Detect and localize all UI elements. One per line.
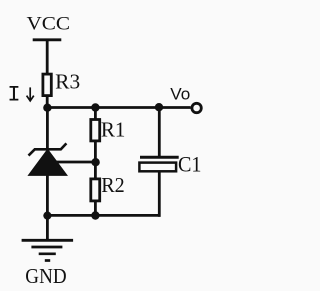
- svg-text:R3: R3: [55, 69, 80, 93]
- wire to ground: [46, 215, 49, 240]
- svg-text:Vo: Vo: [170, 85, 190, 103]
- wire bottom rail: [47, 214, 160, 217]
- svg-text:R1: R1: [101, 118, 126, 142]
- svg-text:R2: R2: [101, 173, 125, 197]
- wire top rail to Vo: [47, 106, 190, 109]
- ground symbol: [22, 240, 74, 260]
- wire R3 to node A: [46, 95, 49, 110]
- wire node to R1: [94, 108, 97, 121]
- wire node to C1: [158, 107, 161, 158]
- node junction dot middle: [91, 103, 99, 111]
- svg-text:C1: C1: [178, 152, 202, 177]
- resistor R3: [43, 74, 51, 96]
- current arrow down: [27, 87, 34, 101]
- svg-text:GND: GND: [25, 264, 66, 288]
- zener diode anode triangle: [28, 149, 67, 175]
- power VCC bar: [33, 38, 62, 41]
- node A junction dot: [43, 104, 51, 112]
- zener diode cathode bar: [29, 143, 67, 155]
- capacitor C1 top plate: [140, 156, 179, 159]
- resistor R2: [91, 179, 100, 201]
- wire zener to bottom rail: [46, 174, 49, 215]
- wire C1 to bottom rail: [158, 172, 161, 217]
- wire ref from diode to divider: [47, 161, 95, 164]
- resistor R1: [91, 120, 100, 141]
- wire R2 to bottom rail: [94, 201, 97, 216]
- svg-text:VCC: VCC: [27, 14, 71, 34]
- node ref junction dot: [91, 158, 99, 166]
- svg-text:I: I: [7, 83, 20, 108]
- capacitor C1 bottom plate box: [139, 163, 176, 172]
- terminal Vo open circle: [192, 103, 201, 112]
- wire VCC bar to R3: [46, 40, 49, 74]
- node bottom left junction dot: [43, 212, 51, 220]
- wire node A to zener: [46, 108, 49, 151]
- wire R1 to R2 through ref node: [94, 141, 97, 179]
- node bottom middle junction dot: [91, 211, 99, 219]
- node junction dot right: [155, 103, 163, 111]
